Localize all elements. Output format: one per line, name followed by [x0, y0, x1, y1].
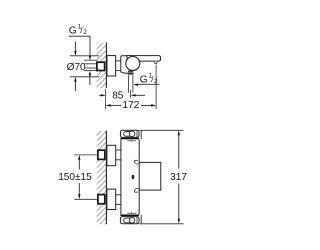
faucet body left block (side view): [121, 56, 130, 73]
svg-text:Ø70: Ø70: [67, 62, 86, 73]
dim 150±15 line + arrows: [78, 155, 80, 199]
wall (front view) hatch: [97, 131, 107, 225]
dim 317 ext bottom: [139, 223, 183, 225]
body vertical edges: [121, 139, 139, 214]
ext line outlet center (dim 85): [130, 90, 132, 98]
pipe thread arrow up: [89, 71, 91, 85]
top handle lever stub: [140, 130, 142, 139]
neck between escutcheon and body: [116, 61, 121, 71]
label G1/2 top: [69, 23, 87, 36]
aerator nub under tube: [155, 61, 157, 63]
lower pipe union square: [98, 195, 105, 204]
concealed pipe profile lines: [84, 60, 98, 70]
lower nipple lines: [116, 195, 121, 205]
upper pipe union square: [98, 150, 105, 159]
block bottom-left curl: [134, 189, 139, 193]
dim 150±15 ext top: [74, 154, 97, 156]
knob circle (thermostat handle, side view): [126, 57, 140, 71]
bottom handle tiny mark: [127, 212, 136, 214]
top handle tiny mark: [127, 140, 136, 142]
dim 317 line + arrows: [178, 130, 180, 224]
svg-text:2: 2: [83, 29, 87, 36]
ext line spout end (dim 172): [155, 65, 157, 109]
wall (top view) hatch: [97, 43, 107, 89]
top handle: [120, 130, 139, 139]
outlet pipe lines down: [128, 75, 133, 93]
leader underline for outlet label: [135, 83, 160, 85]
ext line wall face (dims 85/172): [105, 90, 107, 110]
wall face line (top view): [105, 43, 107, 89]
leader line under G1/2: [69, 36, 90, 56]
dim 85 left arrow (outside): [99, 94, 106, 96]
dim Ø70 arrow bottom: [74, 77, 76, 91]
escutcheon (top view): [107, 56, 116, 76]
block top-left curl: [134, 160, 139, 164]
dim 150±15 ext bottom: [74, 198, 97, 200]
upper escutcheon: [107, 145, 116, 165]
svg-text:317: 317: [170, 172, 187, 183]
bottom handle lever stub: [140, 215, 142, 224]
dim Ø70 ext bottom: [70, 76, 99, 78]
lower escutcheon: [107, 189, 116, 209]
upper nipple lines: [116, 150, 121, 160]
pipe union square (in wall): [97, 62, 105, 70]
dim Ø70 arrow top: [74, 42, 76, 56]
svg-text:G: G: [69, 25, 77, 36]
svg-text:172: 172: [123, 100, 140, 111]
leader arrow down to pipe top: [89, 56, 91, 61]
outlet flange (dark) below knob: [128, 71, 133, 74]
dark logo dot on body: [132, 175, 135, 179]
leader arrow pointing left to outlet: [133, 84, 138, 86]
wall face line (front view): [105, 131, 107, 225]
center mixer block: [139, 162, 161, 190]
body tube (spout, side view): [127, 56, 161, 62]
dim Ø70 ext top: [70, 55, 99, 57]
dim 85 right arrow (outside): [131, 94, 145, 96]
bottom handle: [120, 215, 139, 224]
label G1/2 bottom (outlet): [140, 73, 158, 86]
dim 172 line + arrows: [106, 104, 157, 106]
dim 317 ext top: [139, 129, 183, 131]
svg-text:150±15: 150±15: [58, 172, 92, 183]
